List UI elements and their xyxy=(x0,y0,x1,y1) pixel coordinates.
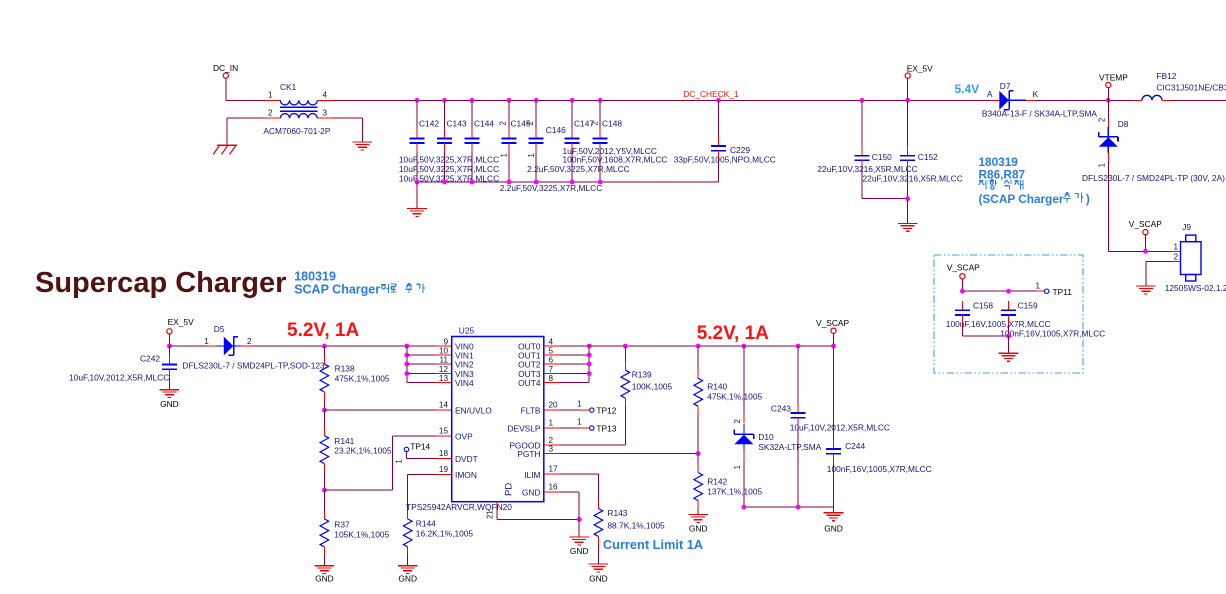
svg-text:1: 1 xyxy=(733,465,742,469)
svg-text:2: 2 xyxy=(1173,253,1178,262)
testpoint TP12 on FLTB pin 20 xyxy=(544,400,617,416)
svg-text:2: 2 xyxy=(590,121,599,125)
junction R140 R142 PGTH xyxy=(696,451,701,456)
svg-text:1: 1 xyxy=(527,153,536,157)
svg-text:2: 2 xyxy=(733,419,742,423)
wire U25 ILIM pin 17 to R143 xyxy=(544,474,599,501)
wire FB12 to right edge xyxy=(1171,99,1226,101)
common-mode choke CK1 xyxy=(263,82,330,136)
svg-text:C143: C143 xyxy=(447,119,467,129)
wire C158 to C159 bottom junction to ground xyxy=(962,334,1010,354)
svg-text:R138: R138 xyxy=(335,364,355,374)
svg-text:2.2uF,50V,3225,X7R,MLCC: 2.2uF,50V,3225,X7R,MLCC xyxy=(500,183,603,193)
svg-text:11: 11 xyxy=(440,355,449,364)
svg-text:GND: GND xyxy=(160,399,179,409)
svg-text:GND: GND xyxy=(315,574,334,584)
svg-text:1: 1 xyxy=(395,459,404,463)
svg-text:2.2uF,50V,3225,X7R,MLCC: 2.2uF,50V,3225,X7R,MLCC xyxy=(527,164,630,174)
svg-text:TPS25942ARVCR,WQFN20: TPS25942ARVCR,WQFN20 xyxy=(406,502,512,512)
svg-text:B340A-13-F / SK34A-LTP,SMA: B340A-13-F / SK34A-LTP,SMA xyxy=(982,109,1098,119)
svg-text:16: 16 xyxy=(549,483,559,492)
svg-text:D7: D7 xyxy=(1000,81,1011,91)
svg-text:C146: C146 xyxy=(546,125,566,135)
svg-text:OUT2: OUT2 xyxy=(518,360,541,370)
resistor R143 xyxy=(594,501,665,565)
svg-text:OUT4: OUT4 xyxy=(518,378,541,388)
ground below CK1 pin 3 xyxy=(353,142,373,150)
svg-text:2: 2 xyxy=(499,121,508,125)
net label DC_CHECK_1 xyxy=(683,89,739,99)
svg-text:C148: C148 xyxy=(602,119,622,129)
wire R138 bottom to U25 EN/UVLO pin 14 xyxy=(322,408,452,413)
dashed annotation box xyxy=(934,255,1083,373)
ground below R37 xyxy=(315,566,335,584)
svg-text:EN/UVLO: EN/UVLO xyxy=(455,406,492,416)
svg-text:17: 17 xyxy=(549,465,559,474)
svg-text:12505WS-02,1.25: 12505WS-02,1.25 xyxy=(1165,283,1226,293)
power port V_SCAP in dashed box xyxy=(947,263,980,292)
svg-text:12: 12 xyxy=(439,365,449,374)
svg-text:VTEMP: VTEMP xyxy=(1099,73,1128,83)
svg-text:A: A xyxy=(987,90,993,99)
svg-text:9: 9 xyxy=(443,337,448,346)
wire U25 OUT pins to output bus with junctions xyxy=(544,344,592,383)
U25 right pin numbers xyxy=(549,337,559,491)
resistor R144 xyxy=(403,511,473,566)
svg-text:GND: GND xyxy=(398,574,417,584)
U25 left pin numbers xyxy=(439,337,449,474)
svg-text:33pF,50V,1005,NPO,MLCC: 33pF,50V,1005,NPO,MLCC xyxy=(674,155,776,165)
svg-text:): ) xyxy=(1086,192,1090,206)
svg-text:DC_IN: DC_IN xyxy=(213,63,238,73)
wire top line to CK1 pin 1 xyxy=(226,99,280,101)
title Supercap Charger xyxy=(35,267,286,299)
svg-text:8: 8 xyxy=(549,374,554,383)
svg-text:5.2V, 1A: 5.2V, 1A xyxy=(697,323,769,344)
svg-text:SK32A-LTP,SMA: SK32A-LTP,SMA xyxy=(758,442,821,452)
svg-text:475K,1%,1005: 475K,1%,1005 xyxy=(335,373,390,383)
C158 C159 value labels xyxy=(946,319,1105,339)
svg-text:2: 2 xyxy=(268,109,273,118)
svg-text:OVP: OVP xyxy=(455,432,473,442)
svg-text:PD: PD xyxy=(503,483,514,496)
svg-text:CIC31J501NE/CB32: CIC31J501NE/CB32 xyxy=(1156,83,1226,93)
capacitor C148 xyxy=(590,100,622,182)
svg-text:K: K xyxy=(1033,90,1039,99)
resistor R142 xyxy=(694,454,763,515)
C150 C152 value labels xyxy=(817,164,962,183)
value label 5.2V 1A left xyxy=(287,320,359,341)
power port EX_5V lower xyxy=(167,317,194,346)
svg-text:C229: C229 xyxy=(730,145,750,155)
svg-text:10: 10 xyxy=(439,346,449,355)
value label 5.4V xyxy=(955,82,980,96)
U25 right pin names xyxy=(507,342,540,498)
svg-text:TP14: TP14 xyxy=(410,442,430,452)
ground below R142 xyxy=(688,515,708,534)
svg-text:GND: GND xyxy=(522,488,541,498)
svg-text:V_SCAP: V_SCAP xyxy=(947,263,980,273)
svg-text:GND: GND xyxy=(689,524,708,534)
svg-text:1: 1 xyxy=(268,91,273,100)
ground below C159 xyxy=(999,353,1019,361)
U25 left pin names xyxy=(455,342,492,481)
svg-text:16.2K,1%,1005: 16.2K,1%,1005 xyxy=(416,529,474,539)
ferrite bead FB12 xyxy=(1142,71,1226,100)
ground below U25 GND pin xyxy=(569,537,589,556)
diode D8 xyxy=(1082,100,1225,251)
svg-text:EX_5V: EX_5V xyxy=(168,317,194,327)
wire EX_5V to D5 anode xyxy=(169,345,216,347)
svg-text:6: 6 xyxy=(549,355,554,364)
svg-text:J9: J9 xyxy=(1182,222,1191,232)
svg-text:C159: C159 xyxy=(1018,301,1038,311)
svg-text:2: 2 xyxy=(526,121,535,125)
svg-text:19: 19 xyxy=(439,465,449,474)
wire TP14 to U25 DVDT pin 18 xyxy=(407,452,452,459)
svg-text:R86,R87: R86,R87 xyxy=(979,167,1026,181)
testpoint TP11 xyxy=(1035,282,1072,297)
svg-text:Supercap Charger: Supercap Charger xyxy=(35,267,286,299)
wire U25 GND pin 16 and PD pad to ground junction xyxy=(486,492,582,537)
svg-text:TP11: TP11 xyxy=(1053,287,1073,297)
svg-text:TP13: TP13 xyxy=(596,423,616,433)
svg-text:D10: D10 xyxy=(758,432,774,442)
svg-text:1: 1 xyxy=(204,337,209,346)
svg-text:1: 1 xyxy=(577,400,582,409)
svg-text:15: 15 xyxy=(439,427,449,436)
ground below C152 xyxy=(898,223,918,231)
svg-text:C158: C158 xyxy=(973,301,993,311)
svg-text:VIN2: VIN2 xyxy=(455,360,474,370)
resistor R140 xyxy=(694,346,763,454)
svg-text:C150: C150 xyxy=(872,152,892,162)
svg-text:1: 1 xyxy=(1098,163,1107,167)
wire R139 bottom to U25 PGOOD pin 2 xyxy=(544,444,626,446)
capacitor C242 xyxy=(69,344,177,390)
svg-text:GND: GND xyxy=(570,546,589,556)
svg-text:DFLS230L-7 / SMD24PL-TP,SOD-12: DFLS230L-7 / SMD24PL-TP,SOD-123 xyxy=(182,361,325,371)
resistor R141 xyxy=(320,410,392,490)
svg-text:1: 1 xyxy=(549,419,554,428)
svg-text:R139: R139 xyxy=(632,369,652,379)
svg-text:C242: C242 xyxy=(140,354,160,364)
capacitor C143 xyxy=(437,100,467,182)
capacitor C145 xyxy=(499,100,531,182)
capacitor C147 xyxy=(565,100,595,182)
ground below R144 xyxy=(398,566,418,584)
wire output bus 5.2V to V_SCAP with junctions xyxy=(589,344,836,349)
ground below C244 xyxy=(824,513,844,534)
svg-text:U25: U25 xyxy=(459,326,475,336)
power port EX_5V top xyxy=(905,63,933,100)
svg-text:R143: R143 xyxy=(607,508,627,518)
connector J9 xyxy=(1165,222,1226,293)
svg-text:105K,1%,1005: 105K,1%,1005 xyxy=(334,530,389,540)
wire C150 C152 bottoms join, junction xyxy=(862,196,910,223)
wire bottom bus of capacitor bank with junctions xyxy=(415,180,719,209)
ground below capacitor bank xyxy=(407,209,427,217)
blue note hangul add xyxy=(1064,192,1090,206)
wire D7 cathode to VTEMP junction to FB12 xyxy=(1035,98,1142,103)
capacitor C144 xyxy=(465,100,495,182)
svg-text:5.2V, 1A: 5.2V, 1A xyxy=(287,320,359,341)
diode D5 xyxy=(182,324,325,371)
svg-text:DVDT: DVDT xyxy=(455,454,478,464)
testpoint TP14 xyxy=(395,442,431,464)
svg-text:4: 4 xyxy=(323,91,328,100)
wire D5 cathode to U25 VIN pins with junctions xyxy=(251,344,452,349)
svg-text:TP12: TP12 xyxy=(596,405,616,415)
power port VTEMP xyxy=(1099,73,1128,101)
op-amp U25 TPS25942 box xyxy=(406,326,544,513)
svg-text:ACM7060-701-2P: ACM7060-701-2P xyxy=(263,126,330,136)
testpoint TP13 on DEVSLP pin 1 xyxy=(544,418,617,434)
capacitor C229 xyxy=(711,100,750,182)
svg-text:R141: R141 xyxy=(334,436,354,446)
svg-text:C144: C144 xyxy=(474,119,494,129)
svg-text:DFLS230L-7 / SMD24PL-TP (30V,: DFLS230L-7 / SMD24PL-TP (30V, 2A) xyxy=(1082,173,1225,183)
wire bottom bus D10 C243 C244 to ground with junctions xyxy=(742,505,834,513)
blue note 180319 R86,R87 xyxy=(979,155,1064,206)
svg-text:D8: D8 xyxy=(1118,119,1129,129)
svg-text:R142: R142 xyxy=(707,476,727,486)
svg-text:180319: 180319 xyxy=(294,269,336,283)
svg-text:7: 7 xyxy=(549,365,554,374)
svg-text:EX_5V: EX_5V xyxy=(907,63,933,73)
svg-text:R140: R140 xyxy=(707,382,727,392)
capacitor C150 xyxy=(855,100,893,198)
svg-text:VIN4: VIN4 xyxy=(455,378,474,388)
svg-text:V_SCAP: V_SCAP xyxy=(816,318,849,328)
svg-text:ILIM: ILIM xyxy=(524,470,540,480)
svg-text:GND: GND xyxy=(589,573,608,583)
capacitor C244 xyxy=(826,346,932,507)
svg-text:21: 21 xyxy=(486,510,495,519)
resistor R139 xyxy=(621,346,673,445)
power port V_SCAP lower xyxy=(816,318,849,346)
svg-text:22uF,10V,3216,X5R,MLCC: 22uF,10V,3216,X5R,MLCC xyxy=(863,173,963,183)
svg-text:10uF,10V,2012,X5R,MLCC: 10uF,10V,2012,X5R,MLCC xyxy=(790,423,890,433)
svg-text:475K,1%,1005: 475K,1%,1005 xyxy=(707,392,762,402)
svg-text:1: 1 xyxy=(1035,282,1040,291)
capacitor C142 xyxy=(410,100,440,182)
svg-text:137K,1%,1005: 137K,1%,1005 xyxy=(707,486,762,496)
svg-text:100nF,16V,1005,X7R,MLCC: 100nF,16V,1005,X7R,MLCC xyxy=(827,464,932,474)
svg-text:C243: C243 xyxy=(771,404,791,414)
capacitor C158 xyxy=(955,301,993,337)
svg-text:10uF,50V,3225,X7R,MLCC: 10uF,50V,3225,X7R,MLCC xyxy=(399,155,499,165)
wire CK1 pin 3 to earth ground xyxy=(317,118,362,142)
svg-text:3: 3 xyxy=(323,109,328,118)
svg-text:DEVSLP: DEVSLP xyxy=(507,424,540,434)
svg-text:100K,1005: 100K,1005 xyxy=(632,381,673,391)
svg-text:GND: GND xyxy=(824,524,843,534)
svg-text:1: 1 xyxy=(499,153,508,157)
wire R141 bottom junction to U25 OVP pin 15 xyxy=(322,436,452,492)
svg-text:FB12: FB12 xyxy=(1156,71,1176,81)
svg-text:C142: C142 xyxy=(419,119,439,129)
svg-text:CK1: CK1 xyxy=(280,82,297,92)
ground below R143 xyxy=(589,564,609,583)
svg-text:FLTB: FLTB xyxy=(521,406,541,416)
svg-text:5: 5 xyxy=(549,346,554,355)
capacitor bank value labels xyxy=(399,146,776,193)
wire J9 pin 2 to ground xyxy=(1146,261,1181,286)
svg-text:IMON: IMON xyxy=(455,470,477,480)
svg-text:14: 14 xyxy=(439,401,449,410)
wire top bus CK1 pin4 to D7 anode, net DC_CHECK_1, with junctions xyxy=(317,98,991,103)
svg-text:C244: C244 xyxy=(845,441,865,451)
svg-text:100nF,16V,1005,X7R,MLCC: 100nF,16V,1005,X7R,MLCC xyxy=(946,319,1051,329)
svg-text:10uF,10V,2012,X5R,MLCC: 10uF,10V,2012,X5R,MLCC xyxy=(69,373,169,383)
title note 180319 SCAP Charger xyxy=(294,269,425,296)
value label 5.2V 1A right xyxy=(697,323,769,344)
svg-text:100nF,16V,1005,X7R,MLCC: 100nF,16V,1005,X7R,MLCC xyxy=(1000,329,1105,339)
svg-text:(SCAP Charger: (SCAP Charger xyxy=(979,192,1064,206)
svg-text:20: 20 xyxy=(549,401,559,410)
svg-text:5.4V: 5.4V xyxy=(955,82,980,96)
svg-text:4: 4 xyxy=(549,337,554,346)
ground below C242 xyxy=(160,390,180,409)
svg-text:1: 1 xyxy=(577,418,582,427)
svg-text:SCAP Charger: SCAP Charger xyxy=(294,283,380,297)
capacitor C152 xyxy=(900,100,938,198)
svg-text:R144: R144 xyxy=(416,519,436,529)
capacitor C159 xyxy=(1001,301,1038,337)
svg-text:PGTH: PGTH xyxy=(517,449,540,459)
diode D10 xyxy=(733,346,822,507)
chassis ground symbol xyxy=(213,145,237,154)
svg-text:100nF,50V,1608,X7R,MLCC: 100nF,50V,1608,X7R,MLCC xyxy=(563,155,668,165)
resistor R37 xyxy=(320,490,389,566)
svg-text:3: 3 xyxy=(549,444,554,453)
capacitor C243 xyxy=(771,346,890,507)
resistor R138 xyxy=(320,346,390,410)
wire U25 IMON pin 19 to R144 xyxy=(408,475,452,511)
wire U25 PGTH pin 3 to R140 R142 junction xyxy=(544,453,698,455)
power port DC_IN xyxy=(213,63,238,78)
svg-text:23.2K,1%,1005: 23.2K,1%,1005 xyxy=(334,446,392,456)
svg-text:1: 1 xyxy=(1173,243,1178,252)
wire D8 to J9 pin 1 with junction xyxy=(1108,249,1180,254)
ground below J9 pin 2 xyxy=(1136,286,1156,294)
svg-text:DC_CHECK_1: DC_CHECK_1 xyxy=(683,89,739,99)
wire DC_IN down to top line xyxy=(225,78,227,100)
svg-text:2: 2 xyxy=(247,337,252,346)
svg-text:C152: C152 xyxy=(918,152,938,162)
diode D7 xyxy=(982,81,1098,119)
blue note Current Limit 1A xyxy=(603,537,703,552)
svg-text:V_SCAP: V_SCAP xyxy=(1129,219,1162,229)
capacitor C146 xyxy=(526,100,566,182)
svg-text:13: 13 xyxy=(439,374,449,383)
wire V_SCAP to TP11 with junctions xyxy=(960,289,1045,294)
svg-text:D5: D5 xyxy=(214,324,225,334)
vertical VIN bus with junctions and pin wires xyxy=(404,346,451,383)
svg-text:88.7K,1%,1005: 88.7K,1%,1005 xyxy=(607,520,665,530)
power port V_SCAP at J9 xyxy=(1129,219,1162,251)
wire CK1 pin 2 to chassis ground xyxy=(227,118,280,145)
svg-text:2: 2 xyxy=(1098,118,1107,122)
svg-text:R37: R37 xyxy=(334,520,350,530)
svg-text:Current Limit 1A: Current Limit 1A xyxy=(603,537,703,552)
svg-text:18: 18 xyxy=(439,449,449,458)
